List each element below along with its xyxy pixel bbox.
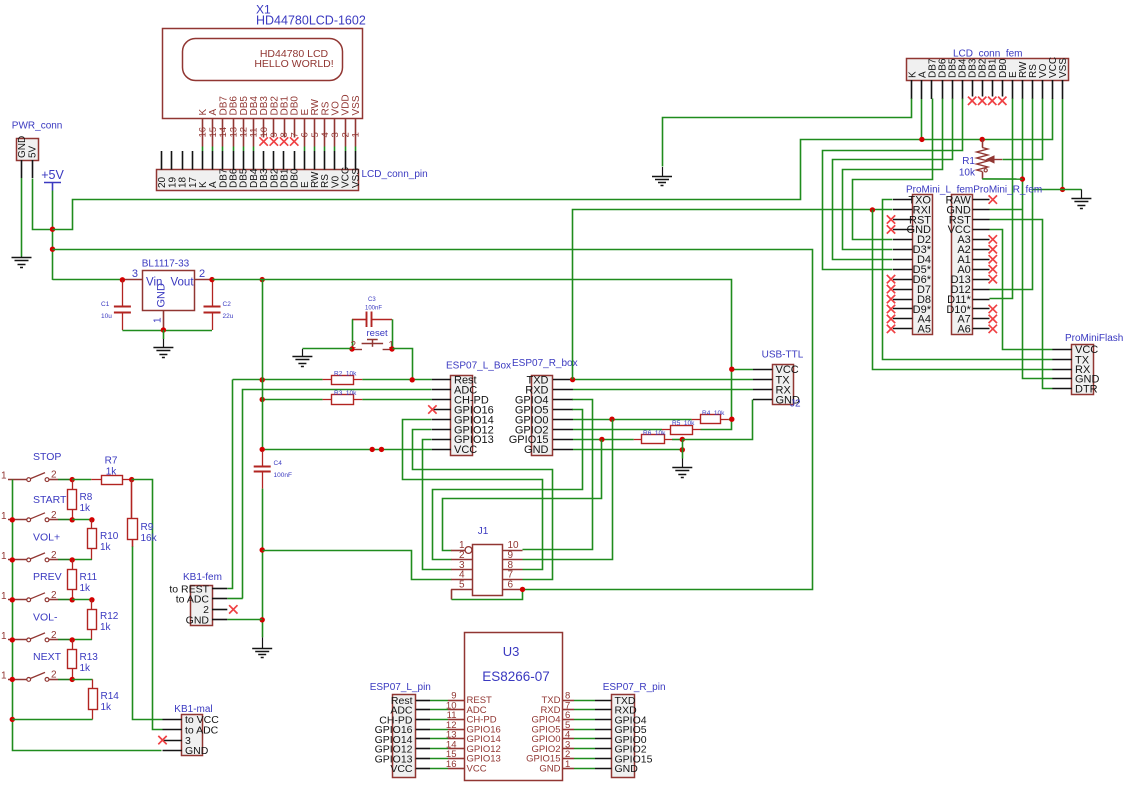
wire A down [921, 99, 923, 139]
resistor R8 1k [68, 480, 93, 520]
wire Rest row east [362, 379, 432, 381]
resistor R14 1k [89, 679, 120, 719]
svg-text:100nF: 100nF [274, 472, 292, 479]
svg-text:START: START [33, 494, 67, 506]
wire RXI branch to flash RX [873, 210, 1053, 370]
wire PWR GND to ground [21, 178, 23, 257]
junction column sw [10, 597, 15, 602]
svg-text:ESP07_L_pin: ESP07_L_pin [370, 682, 431, 693]
LCD module X1 HD44780LCD-1602 [163, 3, 366, 138]
svg-text:VCC: VCC [454, 444, 477, 456]
svg-text:NEXT: NEXT [33, 651, 62, 663]
svg-text:ESP07_R_box: ESP07_R_box [512, 358, 578, 369]
connector ESP07_R_box [509, 358, 578, 456]
junction VCC a [370, 447, 375, 452]
svg-text:C3: C3 [368, 297, 376, 303]
wire +5V rail y249 to J1 pin6 [53, 250, 813, 590]
wire C3 left leg [352, 319, 354, 349]
wire K to ground [663, 99, 912, 167]
wire DB6 to D3 [843, 99, 943, 250]
junction +5V a [50, 227, 55, 232]
wire E to D11 [990, 99, 1013, 299]
svg-text:R12: R12 [100, 611, 119, 622]
wire DB5 to D4 [833, 99, 953, 260]
connector J1 [451, 526, 522, 596]
svg-text:2: 2 [51, 510, 57, 521]
wire gnd rail top right [1032, 189, 1081, 191]
capacitor C1 10u [101, 280, 131, 330]
svg-text:3: 3 [132, 268, 138, 280]
svg-text:HD44780LCD-1602: HD44780LCD-1602 [256, 14, 366, 28]
wire RS to D12 [990, 99, 1033, 290]
wire DB4 to D5 [823, 99, 963, 270]
svg-text:16k: 16k [141, 533, 158, 544]
wire GPIO13 to J1 pin3 [423, 440, 452, 570]
resistor R13 1k [68, 640, 99, 680]
wire VCC_R to flash VCC [990, 230, 1053, 350]
junction reset pin1 [389, 346, 394, 351]
wire GPIO0 row [573, 419, 692, 421]
svg-text:1: 1 [1, 670, 7, 681]
svg-text:R6 10k: R6 10k [643, 430, 666, 437]
svg-text:1: 1 [1, 591, 7, 602]
capacitor C4 100nF [254, 451, 292, 489]
wire STOP to R7 [72, 479, 91, 481]
svg-text:GND: GND [17, 136, 28, 158]
junction A rail [919, 137, 924, 142]
svg-text:6: 6 [508, 579, 514, 590]
svg-text:R9: R9 [141, 522, 154, 533]
no-connect X ProMini_R pins [989, 195, 997, 333]
junction +5V b [50, 247, 55, 252]
wire 5V pin to +5V node [33, 179, 53, 230]
junction CH-PD 3v3 [260, 397, 265, 402]
resistor R9 16k [128, 519, 158, 548]
svg-text:ProMiniFlash: ProMiniFlash [1065, 333, 1123, 344]
svg-text:C4: C4 [274, 460, 283, 467]
no-connect X LCD_conn_fem DB3-DB0 [968, 97, 1007, 105]
svg-text:LCD_conn_pin: LCD_conn_pin [362, 169, 428, 180]
wire R6 right to gnd node [672, 439, 682, 441]
resistor R11 1k [68, 560, 98, 600]
junction STOP node [70, 477, 75, 482]
junction column sw [10, 677, 15, 682]
ground under C4 column [252, 637, 272, 657]
svg-text:VSS: VSS [351, 95, 362, 115]
ground mid ESP07 [672, 459, 692, 478]
connector ESP07_R_pin [574, 682, 666, 778]
svg-text:ESP07_L_Box: ESP07_L_Box [446, 361, 511, 372]
wire J1 pin5 to pin6 loop [452, 589, 523, 599]
junction Rest 3v3 [260, 377, 265, 382]
wire CH-PD row west [262, 399, 322, 401]
svg-text:2: 2 [51, 550, 57, 561]
svg-text:R1: R1 [962, 156, 975, 167]
svg-text:U3: U3 [503, 644, 520, 659]
wire RST_R to flash DTR [990, 220, 1053, 389]
junction J1 pin6 [520, 587, 525, 592]
wire GPIO4 to J1 pin10 [523, 400, 593, 550]
no-connect X GPIO16 [428, 405, 436, 413]
switch VOL- [1, 612, 72, 642]
LCD_conn_fem pin leads [912, 80, 1063, 99]
wire USB VCC [732, 369, 753, 371]
svg-text:KB1-fem: KB1-fem [183, 572, 222, 583]
junction RXI branch [870, 207, 875, 212]
ground near reset [292, 349, 312, 367]
connector ProMini_L_fem [893, 185, 1042, 336]
wire Rest row west [233, 379, 323, 381]
potentiometer R1 10k [959, 139, 1002, 179]
switch NEXT [1, 651, 72, 681]
svg-text:PWR_conn: PWR_conn [12, 121, 63, 132]
svg-text:ES8266-07: ES8266-07 [482, 669, 550, 684]
wire +5V rail upper y199 [53, 99, 1053, 230]
junction NEXT node [70, 677, 75, 682]
wire Vout 3.3V rail to USB-TTL VCC [213, 280, 732, 430]
junction Vin C1 [120, 277, 125, 282]
svg-text:1: 1 [153, 317, 164, 323]
svg-text:STOP: STOP [33, 451, 61, 463]
svg-text:VCC: VCC [467, 763, 487, 774]
svg-text:1k: 1k [101, 702, 113, 713]
junction BL1117 gnd [161, 327, 166, 332]
regulator IC BL1117-33 [122, 259, 212, 331]
svg-text:R13: R13 [80, 652, 99, 663]
wire R9 bottom to KB1-mal to VCC [133, 547, 163, 720]
junction column sw [10, 517, 15, 522]
connector KB1-mal [163, 704, 220, 757]
junction GPIO0 [609, 417, 614, 422]
svg-text:1k: 1k [100, 542, 112, 553]
resistor R3 10k [323, 390, 363, 404]
svg-text:R11: R11 [80, 572, 98, 583]
svg-text:VSS: VSS [351, 168, 362, 188]
svg-text:1: 1 [1, 551, 7, 562]
svg-text:1k: 1k [80, 583, 92, 594]
wire R7 to to-ADC column [132, 480, 163, 730]
svg-text:Vout: Vout [171, 277, 195, 289]
junction R12 top [89, 597, 94, 602]
svg-text:R3 10k: R3 10k [334, 390, 357, 397]
wire GPIO12 to J1 pin7 [413, 430, 553, 580]
svg-text:VSS: VSS [1058, 58, 1069, 78]
resistor R2 10k [323, 371, 363, 385]
resistor R5 10k [662, 420, 701, 434]
svg-text:10k: 10k [959, 168, 976, 179]
svg-text:R4 10k: R4 10k [702, 410, 725, 417]
junction TXD [570, 377, 575, 382]
wire bottom row to R14 [12, 719, 92, 721]
svg-text:BL1117-33: BL1117-33 [142, 259, 190, 270]
junction R10 top [89, 517, 94, 522]
svg-text:1: 1 [1, 511, 7, 522]
svg-text:1: 1 [565, 759, 570, 770]
junction Vout a [209, 277, 214, 282]
wire PREV to R12 [72, 599, 92, 601]
switch VOL+ [1, 532, 72, 562]
wire KB1-fem GND [227, 619, 262, 621]
svg-text:10u: 10u [101, 313, 112, 320]
svg-text:100nF: 100nF [365, 306, 382, 312]
svg-text:GND: GND [185, 745, 209, 757]
svg-text:USB-TTL: USB-TTL [762, 350, 804, 361]
junction R7 right [129, 477, 134, 482]
supply +5V symbol [41, 168, 64, 191]
svg-text:GND: GND [539, 763, 560, 774]
svg-text:22u: 22u [223, 313, 234, 320]
svg-text:+5V: +5V [41, 168, 64, 182]
svg-text:VCC: VCC [390, 763, 413, 775]
wire GPIO15 row [573, 439, 634, 441]
wire to REST up to Rest row [228, 380, 233, 589]
ground mid top [652, 167, 672, 186]
wire VO to R1 wiper [1003, 99, 1043, 160]
svg-text:1k: 1k [80, 663, 92, 674]
wire USB GND down [683, 400, 753, 440]
switch STOP [1, 451, 72, 482]
wire BL1117 ground bus [122, 330, 212, 332]
connector ESP07_L_Box [432, 361, 511, 457]
junction column sw [10, 637, 15, 642]
wire reset to ground [302, 348, 352, 350]
junction R6 gnd [680, 437, 685, 442]
LCD_conn_pin pin leads [162, 151, 356, 170]
svg-text:A5: A5 [918, 324, 931, 336]
junction column r14 [10, 717, 15, 722]
wire GND row [573, 449, 682, 451]
wire reset pin1 to Rest net [393, 349, 413, 380]
wire VSS down [1062, 99, 1064, 189]
junction VOL- node [70, 637, 75, 642]
svg-text:reset: reset [367, 328, 388, 339]
junction Vout b [260, 277, 265, 282]
wire R4 to VCC col [729, 419, 732, 421]
junction START node [70, 517, 75, 522]
IC U3 ES8266-07 [446, 633, 574, 781]
wire DB7 to D2 [853, 99, 933, 240]
switch START [1, 494, 72, 522]
svg-text:VOL-: VOL- [33, 612, 58, 624]
wire GPIO5 to J1 pin2 [433, 410, 583, 560]
resistor R7 1k [91, 456, 132, 485]
svg-text:5: 5 [459, 579, 465, 590]
wire R9 column to to-VCC [131, 480, 133, 519]
svg-text:2: 2 [51, 590, 57, 601]
ground under BL1117 [153, 330, 173, 358]
wires X1 to LCD_conn_pin [203, 147, 356, 152]
svg-text:GND: GND [156, 283, 168, 308]
X1 pins [203, 118, 356, 147]
wire ADC row [243, 390, 432, 599]
svg-text:DTR: DTR [1075, 383, 1098, 395]
no-connect X ProMini_L pins [887, 215, 895, 333]
junction column sw [10, 557, 15, 562]
wire R12 to VOL- [72, 639, 92, 641]
wire switch common column [13, 480, 162, 751]
wire R10 to VOL+ [72, 559, 92, 561]
capacitor C2 22u [204, 280, 234, 330]
wire R1 bottom to RW [982, 178, 1022, 180]
junction GND row [680, 447, 685, 452]
svg-text:C1: C1 [101, 301, 110, 308]
svg-text:R2 10k: R2 10k [334, 371, 357, 378]
resistor R4 10k [692, 410, 729, 424]
connector ProMiniFlash [1052, 333, 1123, 395]
svg-text:J2: J2 [790, 399, 801, 410]
junction PREV node [70, 597, 75, 602]
svg-text:1k: 1k [106, 467, 118, 478]
wire RW down to flash GND [1023, 99, 1053, 379]
svg-text:1k: 1k [80, 503, 92, 514]
svg-text:2: 2 [51, 630, 57, 641]
wire CH-PD row east [362, 399, 432, 401]
svg-text:J1: J1 [478, 526, 489, 537]
svg-text:R14: R14 [101, 691, 120, 702]
wire GPIO14 to J1 pin8 [403, 420, 543, 570]
svg-text:PREV: PREV [33, 571, 62, 583]
ground top right [1071, 189, 1091, 208]
connector KB1-fem [169, 572, 227, 627]
wire +5V vertical node [52, 191, 54, 280]
svg-text:2: 2 [199, 268, 205, 280]
capacitor C3 100nF [352, 297, 392, 327]
switch PREV [1, 571, 72, 602]
junction RW R1bottom [1020, 176, 1025, 181]
no-connect X KB1-mal 3 [158, 736, 166, 744]
junction gnd J1pin4 line [260, 547, 265, 552]
no-connect X marks on X1 DB3-DB0 [259, 137, 298, 145]
junction gnd KB1 [260, 617, 265, 622]
pushbutton reset [350, 328, 394, 351]
svg-text:GND: GND [524, 444, 549, 456]
wire TXO to flash TX [883, 200, 1053, 360]
wire C4 ground column [262, 489, 264, 638]
junction VCC col [260, 447, 265, 452]
junction R1 top [980, 137, 985, 142]
svg-text:1k: 1k [100, 622, 112, 633]
svg-text:2: 2 [51, 470, 57, 481]
wire GPIO15 to J1 pin1 [443, 440, 602, 551]
svg-text:R8: R8 [80, 492, 93, 503]
wire GPIO2 row [573, 429, 662, 431]
resistor R10 1k [88, 520, 119, 560]
resistor R6 10k [634, 430, 672, 444]
wire GND_R to RW column [990, 209, 1023, 211]
wire TXD to ProMini RXI [573, 210, 893, 380]
junction reset pin2 [349, 346, 354, 351]
ground under PWR_conn [12, 257, 32, 268]
resistor R12 1k [88, 600, 119, 640]
wire to ADC stub [227, 598, 242, 600]
svg-text:HELLO WORLD!: HELLO WORLD! [254, 58, 333, 70]
junction VSS gnd [1060, 187, 1065, 192]
junction VOL+ node [70, 557, 75, 562]
wire RXD row to USB-TTL RX [573, 389, 753, 391]
connector LCD_conn_fem [907, 49, 1070, 81]
wire C3 right leg [392, 319, 394, 349]
wire GPIO0 to J1 pin9 [523, 420, 613, 560]
connector ESP07_L_pin [370, 682, 448, 778]
svg-text:1: 1 [1, 631, 7, 642]
svg-text:R7: R7 [105, 456, 118, 467]
junction GPIO15 [599, 437, 604, 442]
connector USB-TTL J2 [753, 350, 804, 410]
svg-text:GND: GND [615, 763, 639, 775]
svg-text:VOL+: VOL+ [33, 532, 60, 544]
svg-text:R5 10k: R5 10k [672, 420, 695, 427]
svg-text:C2: C2 [223, 301, 232, 308]
svg-text:1: 1 [1, 471, 7, 482]
connector LCD_conn_pin [157, 167, 428, 191]
wire Vin rail [53, 279, 123, 281]
junction Rest reset [410, 377, 415, 382]
junction R4 vcc [729, 417, 734, 422]
connector PWR_conn [12, 121, 63, 179]
wire NEXT to R14 [72, 679, 92, 681]
wire 3.3V column [262, 280, 264, 451]
wire START to R10 [72, 519, 92, 521]
svg-text:GND: GND [186, 615, 210, 627]
svg-text:R10: R10 [100, 531, 119, 542]
wire TXD row to USB-TTL TX [573, 379, 753, 381]
wire VCC row [262, 449, 432, 451]
junction USB VCC [729, 367, 734, 372]
svg-text:5V: 5V [28, 145, 39, 158]
svg-text:2: 2 [51, 669, 57, 680]
junction VCC b [379, 447, 384, 452]
svg-text:A6: A6 [957, 324, 970, 336]
wire gnd node stub [682, 439, 684, 458]
svg-text:ESP07_R_pin: ESP07_R_pin [603, 682, 666, 693]
wire gnd to J1 pin4 [263, 551, 452, 580]
connector ProMini_R_fem [946, 194, 990, 335]
no-connect X KB1-fem 2 [229, 605, 237, 613]
